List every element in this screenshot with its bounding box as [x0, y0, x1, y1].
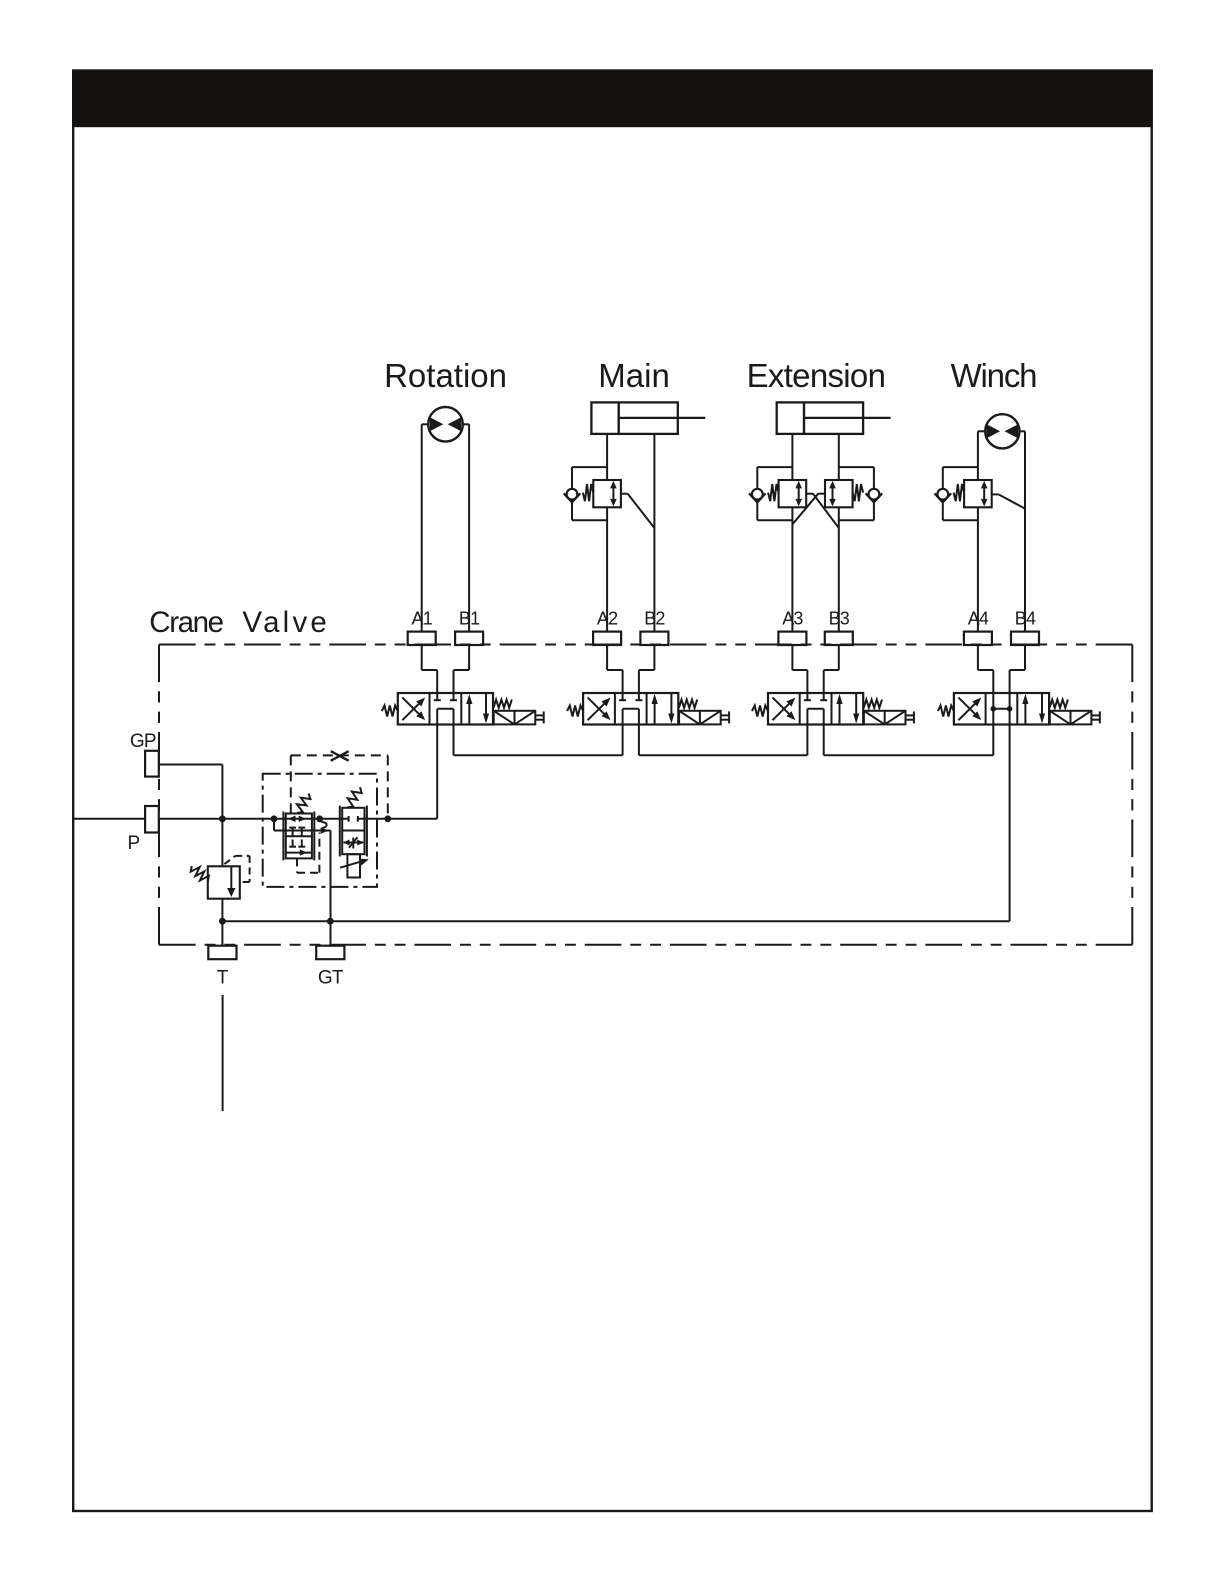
junction compensator outlet [316, 815, 323, 822]
wire GT riser [330, 831, 332, 946]
wire B3 to valve [838, 645, 840, 670]
check valve CB1 (main) [567, 489, 578, 500]
wire motor M1 ports [422, 423, 429, 425]
motor M2 (winch) [985, 414, 1019, 448]
port A3 [778, 632, 806, 645]
compensator valve CP body [286, 814, 312, 859]
valve V1 center blocked ports [436, 693, 438, 700]
valve V3 center blocked ports [806, 693, 808, 700]
counterbalance valve CB4 (winch) pilot line [992, 493, 999, 495]
junction compensator inlet [271, 815, 278, 822]
wire B2 to valve [653, 645, 655, 670]
wire V4 return to tank rail [1009, 725, 1011, 922]
compensator valve CP blocked ports upper [292, 828, 294, 837]
counterbalance valve CB3 (extension B) [825, 480, 853, 507]
valve V1 center bypass bridge [437, 708, 453, 710]
wire main cylinder A-port [606, 434, 608, 480]
wire extension cylinder B-port [838, 434, 840, 480]
valve V4 parallel-arrows position [1024, 700, 1026, 725]
valve V4 return spring [938, 706, 954, 717]
wire carryover V3 to V4 [823, 725, 825, 756]
counterbalance valve CB3 (extension B) pilot line [818, 493, 825, 495]
check valve CB2 (extension A) [752, 489, 763, 500]
counterbalance valve CB4 (winch) [964, 480, 992, 507]
svg-text:T: T [217, 968, 229, 989]
valve V4 pilot actuator [1050, 711, 1092, 725]
check valve CB3 (extension B) [869, 489, 880, 500]
wire P rail [159, 818, 349, 820]
wire carryover V2 to V3 [638, 725, 640, 756]
valve V2 crossed-arrows position [588, 701, 608, 720]
crane valve boundary box [159, 644, 1132, 646]
valve V3 pilot spring [864, 700, 882, 708]
svg-text:Rotation: Rotation [384, 357, 507, 394]
valve V3 parallel-arrows position [839, 700, 841, 725]
counterbalance valve CB1 (main) pilot line [621, 493, 628, 495]
counterbalance valve CB2 (extension A) pilot line [806, 493, 813, 495]
compensator valve CP mid passage [273, 819, 275, 831]
wire motor M2 ports [978, 430, 985, 432]
wire extension cylinder A-port [791, 434, 793, 480]
wire A4 to valve [977, 645, 979, 670]
valve V2 parallel-arrows position [654, 700, 656, 725]
port B3 [825, 632, 853, 645]
valve V2 body [583, 693, 678, 725]
valve V2 pilot port [721, 714, 729, 716]
unloader valve UV vent box [347, 854, 360, 877]
wire GP to P line [159, 764, 223, 766]
compensator valve CP lower passage [286, 852, 312, 854]
compensator outlet curve [320, 819, 331, 831]
valve V1 pilot spring [494, 700, 512, 708]
svg-text:Valve: Valve [242, 606, 330, 639]
wire pump inlet [74, 818, 145, 820]
check valve CB4 (winch) [937, 489, 948, 500]
relief valve RV1 body [208, 866, 240, 898]
svg-text:Extension: Extension [747, 357, 886, 394]
port T [208, 946, 236, 960]
valve V3 pilot port [906, 714, 914, 716]
valve V2 center blocked ports [622, 693, 624, 700]
counterbalance valve CB2 (extension A) [779, 480, 807, 507]
counterbalance valve CB3 (extension B) spring [853, 484, 864, 501]
svg-text:Winch: Winch [951, 357, 1037, 394]
port GP [145, 751, 159, 777]
svg-text:Crane: Crane [149, 606, 223, 639]
unloader valve UV adjust arrow [340, 860, 365, 868]
orifice (restrictor) [331, 751, 349, 761]
compensator assembly enclosure [263, 774, 377, 887]
compensator valve CP blocked ports lower [292, 840, 294, 847]
counterbalance valve CB3 (extension B) check bypass [839, 466, 874, 468]
port A4 [964, 632, 992, 645]
port A1 [408, 632, 436, 645]
wire carryover V1 to V2 [453, 725, 455, 756]
port A2 [593, 632, 621, 645]
valve V3 body [768, 693, 863, 725]
svg-text:GT: GT [318, 968, 344, 989]
motor M1 (rotation) [428, 407, 463, 442]
port B2 [640, 632, 668, 645]
port B1 [455, 632, 483, 645]
valve V4 pilot port [1091, 714, 1099, 716]
valve V2 center bypass bridge [623, 708, 639, 710]
counterbalance valve CB4 (winch) spring [954, 484, 965, 501]
junction tank-GT [327, 918, 334, 925]
wire relief RV1 to tank [221, 899, 223, 946]
counterbalance valve CB1 (main) [593, 480, 621, 507]
junction P to valves [384, 815, 391, 822]
port P [145, 806, 159, 833]
pilot sense line with orifice [290, 755, 292, 813]
wire T drain [222, 995, 224, 1111]
svg-text:Main: Main [598, 357, 670, 394]
compensator valve CP flow arrows [288, 816, 296, 822]
wire P to relief RV1 [221, 819, 223, 867]
relief valve RV1 pilot line [224, 856, 235, 864]
wire B1 to valve [468, 645, 470, 670]
wire A3 to valve [791, 645, 793, 670]
valve V4 center motor-spool [992, 693, 994, 725]
unloader valve UV metering symbol [344, 842, 364, 844]
unloader valve UV body [342, 808, 364, 854]
counterbalance valve CB2 (extension A) check bypass [757, 466, 792, 468]
valve V3 return spring [752, 706, 768, 717]
valve V3 center bypass bridge [807, 708, 823, 710]
valve V3 crossed-arrows position [773, 701, 793, 720]
wire main cylinder B-port [653, 434, 655, 632]
counterbalance valve CB4 (winch) check bypass [943, 466, 978, 468]
valve V4 crossed-arrows position [958, 701, 978, 720]
unloader valve UV blocked inlet [348, 816, 350, 822]
cylinder main boom [591, 402, 677, 434]
counterbalance valve CB2 (extension A) spring [768, 484, 779, 501]
valve V1 return spring [382, 706, 398, 717]
unloader valve UV spring [347, 787, 362, 807]
port B4 [1011, 632, 1039, 645]
junction P-GP [219, 815, 226, 822]
valve V4 body [954, 693, 1049, 725]
valve V1 parallel-arrows position [468, 700, 470, 725]
wire A1 to valve [421, 645, 423, 670]
counterbalance valve CB1 (main) check bypass [572, 466, 607, 468]
valve V1 pilot port [535, 714, 543, 716]
valve V2 pilot actuator [679, 711, 721, 725]
wire B4 to valve [1024, 645, 1026, 670]
counterbalance valve CB1 (main) spring [583, 484, 594, 501]
junction tank-T [219, 918, 226, 925]
svg-text:GP: GP [130, 731, 156, 752]
header bar [72, 71, 1153, 128]
wire A2 to valve [606, 645, 608, 670]
valve V1 pilot actuator [494, 711, 536, 725]
valve V2 pilot spring [679, 700, 697, 708]
valve V3 pilot actuator [864, 711, 906, 725]
port GT [316, 946, 344, 960]
relief valve RV1 spring [191, 866, 209, 882]
compensator valve CP pilot feedback [296, 858, 298, 872]
valve V1 crossed-arrows position [402, 701, 422, 720]
wire P supply to valve V1 [436, 725, 438, 819]
svg-text:P: P [127, 833, 140, 854]
valve V2 return spring [567, 706, 583, 717]
valve V1 body [398, 693, 493, 725]
compensator valve CP spring [297, 794, 311, 814]
cylinder extension [777, 402, 863, 434]
tank rail [222, 920, 1009, 922]
valve V4 pilot spring [1050, 700, 1068, 708]
